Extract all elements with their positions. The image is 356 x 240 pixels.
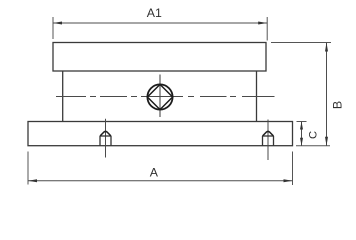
dimension A extension line left xyxy=(27,152,29,185)
svg-text:A1: A1 xyxy=(147,6,162,20)
right bolt centerline xyxy=(267,120,269,161)
vertical centerline of circle xyxy=(159,75,161,118)
dimension C extension line top xyxy=(297,121,307,123)
inscribed square xyxy=(147,84,172,109)
dimension A1 arrow left xyxy=(53,22,62,25)
svg-text:B: B xyxy=(330,101,344,109)
middle body right edge xyxy=(256,71,258,122)
dimension C line xyxy=(301,122,303,146)
dimension A1 line xyxy=(53,22,267,24)
dimension B extension line bottom xyxy=(296,145,330,147)
dimension A1 extension line left xyxy=(52,17,54,39)
left bolt dome xyxy=(100,131,111,136)
dimension C arrow bottom xyxy=(300,138,303,146)
base plate xyxy=(28,122,293,146)
svg-text:C: C xyxy=(308,131,320,139)
dimension C arrow top xyxy=(300,122,303,130)
dimension A arrow left xyxy=(28,179,37,182)
dimension B arrow bottom xyxy=(325,137,328,146)
dimension A line xyxy=(28,180,293,182)
dimension A arrow right xyxy=(284,179,293,182)
label B xyxy=(330,101,344,109)
right bolt body xyxy=(263,136,274,146)
top swivel plate xyxy=(53,43,266,72)
middle body left edge xyxy=(62,71,64,122)
label A xyxy=(150,166,159,180)
label A1 xyxy=(147,6,162,20)
center circle xyxy=(147,84,172,109)
label C xyxy=(308,131,320,139)
dimension B extension line top xyxy=(271,42,331,44)
svg-text:A: A xyxy=(150,166,159,180)
horizontal centerline xyxy=(56,96,275,98)
right bolt dome xyxy=(263,131,274,136)
left bolt body xyxy=(100,136,111,146)
dimension A1 extension line right xyxy=(266,17,268,41)
dimension B arrow top xyxy=(325,43,328,52)
left bolt centerline xyxy=(105,119,107,158)
dimension A extension line right xyxy=(292,152,294,186)
dimension A1 arrow right xyxy=(258,22,267,25)
dimension B line xyxy=(326,43,328,146)
